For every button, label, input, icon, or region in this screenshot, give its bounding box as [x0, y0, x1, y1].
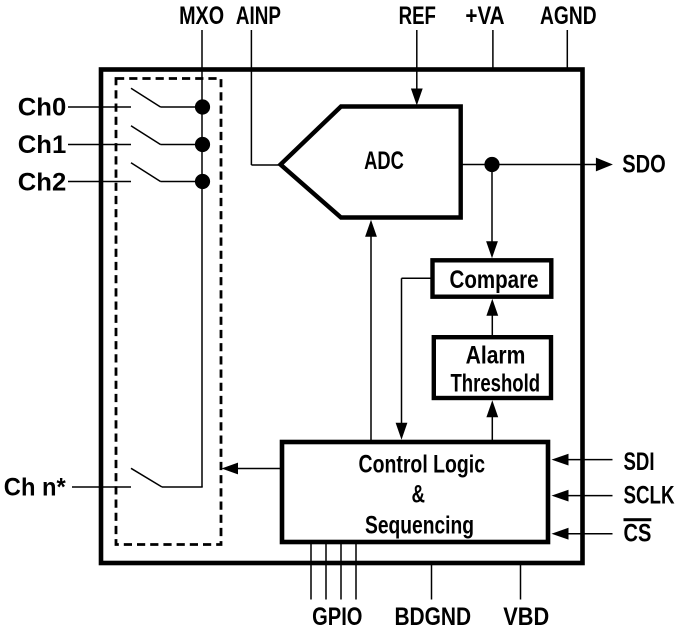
wire SDO [461, 164, 597, 166]
svg-text:REF: REF [399, 2, 436, 30]
svg-text:Control Logic: Control Logic [359, 451, 486, 479]
wire Control Logic to multiplexer [237, 468, 280, 470]
wire Compare to Control Logic horizontal [402, 277, 433, 279]
wire AINP horizontal [251, 164, 281, 166]
wire VBD [520, 564, 522, 600]
wire SDI [566, 459, 613, 461]
svg-text:MXO: MXO [179, 2, 224, 30]
wire GPIO 4 [355, 542, 357, 600]
svg-text:SDO: SDO [622, 151, 666, 179]
node Ch2 junction [195, 174, 210, 189]
svg-text:Compare: Compare [450, 266, 539, 294]
arrowhead into multiplexer [222, 463, 239, 475]
wire Ch2 to MXO [161, 181, 203, 183]
arrowhead REF into ADC [411, 89, 423, 106]
chip outline [101, 70, 583, 564]
arrowhead SDI into Control Logic [552, 454, 569, 466]
svg-text:Ch n*: Ch n* [4, 474, 66, 502]
wire REF [416, 30, 418, 90]
control logic block [282, 442, 548, 542]
wire Ch0 to MXO [161, 106, 203, 108]
wire GPIO 3 [340, 542, 342, 600]
node Ch1 junction [195, 137, 210, 152]
switch Ch0 [131, 88, 161, 107]
overline CS [624, 518, 652, 521]
svg-text:+VA: +VA [465, 2, 504, 30]
arrowhead SCLK into Control Logic [552, 490, 569, 502]
svg-text:SCLK: SCLK [624, 482, 675, 510]
svg-text:ADC: ADC [364, 147, 404, 175]
wire BDGND [431, 564, 433, 600]
svg-text:BDGND: BDGND [394, 603, 471, 629]
svg-text:SDI: SDI [624, 448, 655, 476]
svg-text:Ch2: Ch2 [18, 169, 67, 197]
wire Control Logic to Alarm Threshold [491, 414, 493, 440]
svg-text:Ch1: Ch1 [18, 131, 67, 159]
wire SCLK [566, 495, 613, 497]
arrowhead into Compare bottom [486, 299, 498, 316]
svg-text:Alarm: Alarm [466, 342, 526, 370]
wire Ch n* [72, 486, 131, 488]
node SDO junction [484, 157, 499, 172]
arrowhead into Alarm Threshold [486, 400, 498, 417]
switch Ch1 [131, 126, 161, 145]
wire +VA [492, 30, 494, 68]
wire MXO vertical [201, 30, 203, 487]
arrowhead CS into Control Logic [552, 528, 569, 540]
wire AINP vertical [250, 30, 252, 165]
svg-text:VBD: VBD [503, 603, 549, 629]
svg-text:GPIO: GPIO [312, 603, 362, 629]
svg-text:AGND: AGND [540, 2, 597, 30]
wire Ch2 [68, 181, 131, 183]
wire AGND [566, 30, 568, 68]
wire SDO node to Compare [491, 165, 493, 246]
wire CS [566, 533, 613, 535]
multiplexer dashed box [116, 79, 221, 545]
svg-text:Sequencing: Sequencing [365, 512, 474, 540]
wire GPIO 1 [310, 542, 312, 600]
comparator block Compare [433, 260, 552, 296]
alarm threshold block [434, 337, 551, 398]
svg-text:CS: CS [624, 520, 652, 548]
svg-text:Threshold: Threshold [450, 370, 540, 398]
wire GPIO 2 [325, 542, 327, 600]
arrowhead into ADC bottom [365, 220, 377, 237]
wire Control Logic to ADC [370, 234, 372, 440]
arrowhead SDO [596, 158, 613, 172]
svg-text:Ch0: Ch0 [18, 94, 67, 122]
switch Ch2 [131, 163, 161, 182]
arrowhead into Control Logic top [396, 423, 408, 440]
svg-text:&: & [411, 481, 425, 509]
ADC converter [281, 107, 461, 218]
wire Ch1 to MXO [161, 144, 203, 146]
svg-text:AINP: AINP [236, 2, 281, 30]
wire Compare to Control Logic vertical [401, 278, 403, 426]
node Ch0 junction [195, 99, 210, 114]
wire Alarm Threshold to Compare [491, 312, 493, 336]
wire Ch0 [68, 106, 131, 108]
wire Ch1 [68, 144, 131, 146]
wire Ch n* to MXO [162, 486, 203, 488]
arrowhead into Compare [486, 241, 498, 258]
switch Ch n* [131, 468, 162, 487]
